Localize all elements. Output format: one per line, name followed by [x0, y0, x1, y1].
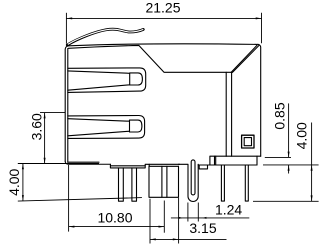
arrow 1.24 left — [179, 217, 183, 219]
left pin 1 — [119, 168, 124, 201]
right pin 2 — [245, 165, 248, 201]
shield small square inner — [244, 138, 251, 146]
upper latch slot inner — [68, 71, 143, 90]
arrow 3.15 right — [173, 238, 179, 240]
svg-text:3.60: 3.60 — [28, 113, 44, 140]
housing inner bottom line — [68, 161, 99, 163]
base tab divider 2 — [215, 156, 217, 165]
dim 3.15 / 1.24 shared ext — [178, 198, 180, 244]
dim 0.85 line upper — [288, 103, 290, 157]
rear chamfer double edge outer — [233, 46, 259, 73]
arrow 4.00 left bottom — [22, 195, 24, 201]
arrow 3.60 bottom — [44, 158, 46, 164]
dim 3.60 ext line top — [40, 112, 65, 114]
right pin 1 — [221, 165, 224, 201]
leg block inner line 2 — [166, 166, 168, 197]
arrow 4.00 left top — [22, 164, 24, 170]
lower latch slot inner — [68, 119, 142, 136]
svg-text:10.80: 10.80 — [97, 209, 132, 225]
dim 21.25 ext line right — [261, 13, 263, 43]
spring wire on top (double line) — [67, 29, 143, 45]
bottom tray under body — [110, 164, 145, 168]
base tab divider 1 — [214, 156, 216, 165]
rear panel front wall line 2 — [231, 72, 233, 156]
dim 1.24 ext right — [197, 203, 199, 222]
dim 10.80 line — [69, 226, 165, 228]
shield small square outer — [242, 135, 254, 148]
link line block to hairpin — [179, 163, 189, 165]
leg block inner line 1 — [161, 166, 163, 197]
dim 0.85 line lower — [288, 165, 290, 174]
arrow 0.85 down — [288, 152, 290, 158]
base left tab — [210, 156, 226, 165]
base bottom edge — [199, 164, 257, 166]
dim 4.00 left / 3.60 shared ext — [18, 163, 99, 165]
svg-text:21.25: 21.25 — [145, 0, 180, 16]
arrow 4.00 right bottom — [311, 195, 313, 201]
dim 4.00 left line — [22, 164, 24, 201]
dim 0.85 / 4.00 right shared ext — [263, 164, 319, 166]
housing bottom-left corner — [65, 161, 110, 164]
svg-text:4.00: 4.00 — [6, 168, 22, 195]
dim 0.85 ext top — [265, 156, 291, 158]
dim 3.15 line — [150, 238, 227, 240]
arrow 21.25 right — [256, 17, 262, 19]
svg-text:4.00: 4.00 — [294, 122, 310, 149]
housing outer outline — [65, 44, 261, 161]
dim 10.80 ext right — [163, 201, 165, 233]
dim 3.15 ext left — [149, 199, 151, 244]
dim 1.24 line — [171, 217, 249, 219]
svg-text:0.85: 0.85 — [272, 102, 288, 129]
arrow 3.15 left — [150, 238, 156, 240]
rear panel front wall line 1 — [225, 72, 227, 156]
dim 10.80 ext left — [68, 165, 70, 232]
dim 4.00 right line — [311, 123, 313, 202]
dim 4.00 right ext bottom — [253, 200, 319, 202]
arrow 4.00 right top — [311, 165, 313, 171]
housing inner left wall — [67, 49, 69, 163]
dim 1.24 ext left — [187, 203, 189, 222]
base right edge — [256, 156, 258, 165]
base bottom line under panel — [226, 155, 261, 157]
dim 21.25 ext line left — [65, 13, 67, 44]
leg block top — [149, 164, 178, 166]
arrow 21.25 left — [66, 17, 72, 19]
hairpin pin inner — [191, 160, 195, 195]
arrow 10.80 right — [159, 226, 165, 228]
arrow 10.80 left — [69, 226, 75, 228]
svg-text:3.15: 3.15 — [189, 220, 216, 236]
hairpin pin outer — [188, 164, 198, 201]
leg block body — [149, 166, 179, 197]
arrow 3.60 top — [44, 113, 46, 119]
upper latch slot outer — [68, 68, 146, 93]
tray right step tab — [145, 164, 179, 165]
dim 3.60 line — [44, 113, 46, 164]
link line hairpin to base step — [198, 165, 207, 169]
dim 21.25 line — [66, 17, 261, 19]
dim 4.00 left ext bottom — [18, 198, 142, 202]
arrow 1.24 right — [202, 217, 206, 219]
svg-text:1.24: 1.24 — [215, 201, 242, 217]
rear chamfer double edge inner — [231, 45, 257, 72]
left pin 2 — [132, 168, 137, 201]
arrow 0.85 up — [288, 165, 290, 171]
housing inner top line and chamfer diagonal — [68, 45, 232, 72]
lower latch slot outer — [68, 116, 145, 139]
